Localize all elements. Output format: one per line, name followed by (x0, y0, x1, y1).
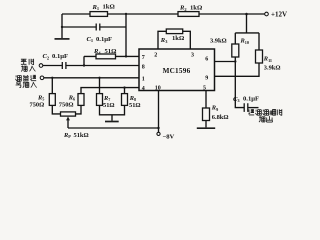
svg-text:3.9kΩ: 3.9kΩ (210, 38, 227, 45)
potentiometer wiper arrow (67, 120, 69, 128)
node dot pin7 x126 (125, 55, 127, 57)
resistor R5 750 (49, 94, 55, 106)
ground G3 (197, 127, 215, 129)
node dot R8 branch (123, 86, 125, 88)
resistor R4 (96, 54, 116, 59)
wire R7 R8 bottoms join (100, 105, 125, 120)
wire pin 5 down to R9 (205, 91, 207, 109)
svg-text:1kΩ: 1kΩ (103, 4, 115, 11)
wire pin 4 line (81, 88, 139, 94)
resistor R3 (166, 29, 182, 34)
svg-text:6: 6 (205, 56, 208, 62)
wire vertical rail to pin7 line (125, 14, 127, 56)
svg-text:+12V: +12V (271, 11, 287, 19)
capacitor C1 (96, 24, 100, 31)
wire left branch down from rail (61, 14, 63, 38)
node dot R4 branch (83, 64, 85, 66)
svg-text:6.8kΩ: 6.8kΩ (212, 114, 229, 121)
wire carrier to pin 8 (43, 65, 139, 67)
resistor R10 (232, 44, 239, 57)
resistor R7 51 (97, 94, 103, 106)
label modulation input 调制信号输入 (16, 75, 37, 88)
svg-text:1kΩ: 1kΩ (172, 35, 184, 42)
resistor R11 (256, 50, 263, 63)
svg-text:750Ω: 750Ω (30, 102, 45, 109)
svg-text:3.9kΩ: 3.9kΩ (264, 65, 281, 72)
wire R9 bottom (205, 121, 207, 128)
wire R10 bottom (234, 57, 236, 62)
node dot R7 branch (98, 77, 100, 79)
svg-text:8: 8 (142, 64, 145, 70)
op-amp IC MC1596 (139, 49, 215, 91)
svg-text:51kΩ: 51kΩ (74, 132, 89, 139)
wire output down to C3 (235, 62, 244, 108)
node junction on rail at x246.5 (245, 13, 248, 16)
svg-text:51Ω: 51Ω (129, 102, 141, 109)
capacitor C2 (62, 62, 66, 69)
node dot rail x126 (125, 13, 127, 15)
svg-text:0.1μF: 0.1μF (243, 96, 259, 103)
node dot R5 branch (51, 77, 53, 79)
node dot C1 branch (61, 26, 63, 28)
ground G2 (105, 121, 119, 123)
terminal carrier (39, 64, 43, 68)
svg-text:750Ω: 750Ω (59, 102, 74, 109)
terminal +12V (265, 12, 269, 16)
wire R8 branch (124, 88, 126, 94)
resistor R9 (203, 108, 210, 121)
wire R3 bracket pins 2-3 (158, 31, 190, 49)
wire pin 6 (215, 61, 236, 63)
wire R5 branch (51, 78, 53, 94)
label carrier input 载波输入 (21, 59, 36, 72)
potentiometer RP body (61, 112, 76, 116)
svg-text:−8V: −8V (163, 134, 175, 140)
svg-text:9: 9 (205, 76, 208, 82)
svg-text:51Ω: 51Ω (105, 48, 117, 55)
resistor R8 51 (122, 94, 128, 106)
resistor R1 (90, 12, 108, 17)
wire pin 9 to R11 (215, 63, 260, 76)
svg-text:10: 10 (155, 86, 161, 92)
wire pin 10 down to -8V (158, 91, 160, 133)
terminal -8V (157, 132, 160, 135)
resistor R2 (178, 12, 199, 17)
svg-text:MC1596: MC1596 (163, 67, 191, 75)
resistor R6 750 (78, 94, 84, 106)
label output 普通调幅波输出 (248, 109, 282, 122)
terminal modulation (40, 76, 44, 80)
node dot bottom rail (157, 127, 159, 129)
svg-text:0.1μF: 0.1μF (96, 36, 112, 43)
wire C1 left (62, 26, 96, 28)
svg-text:3: 3 (191, 52, 194, 58)
svg-text:51Ω: 51Ω (103, 102, 115, 109)
wire R4 branch up (84, 56, 139, 65)
svg-text:2: 2 (154, 52, 157, 58)
wire C1 right (100, 26, 126, 28)
wire +12V feed down (235, 14, 259, 50)
svg-text:1: 1 (142, 76, 145, 82)
svg-text:1kΩ: 1kΩ (190, 4, 202, 11)
wire C3 out (248, 107, 258, 109)
wire R7 branch (99, 78, 101, 94)
svg-text:0.1μF: 0.1μF (52, 53, 68, 60)
wire R5 bottom to pot (52, 105, 60, 114)
wire top +12V rail (62, 13, 265, 15)
svg-text:4: 4 (142, 86, 145, 92)
wire bottom rail to -8V (68, 127, 159, 129)
svg-text:7: 7 (142, 55, 145, 61)
wire modulation to pin 1 (44, 77, 139, 79)
capacitor C3 (244, 103, 248, 112)
node dot pin6 output (234, 60, 236, 62)
wire R6 bottom to pot (76, 105, 82, 114)
ground G1 (55, 38, 70, 40)
